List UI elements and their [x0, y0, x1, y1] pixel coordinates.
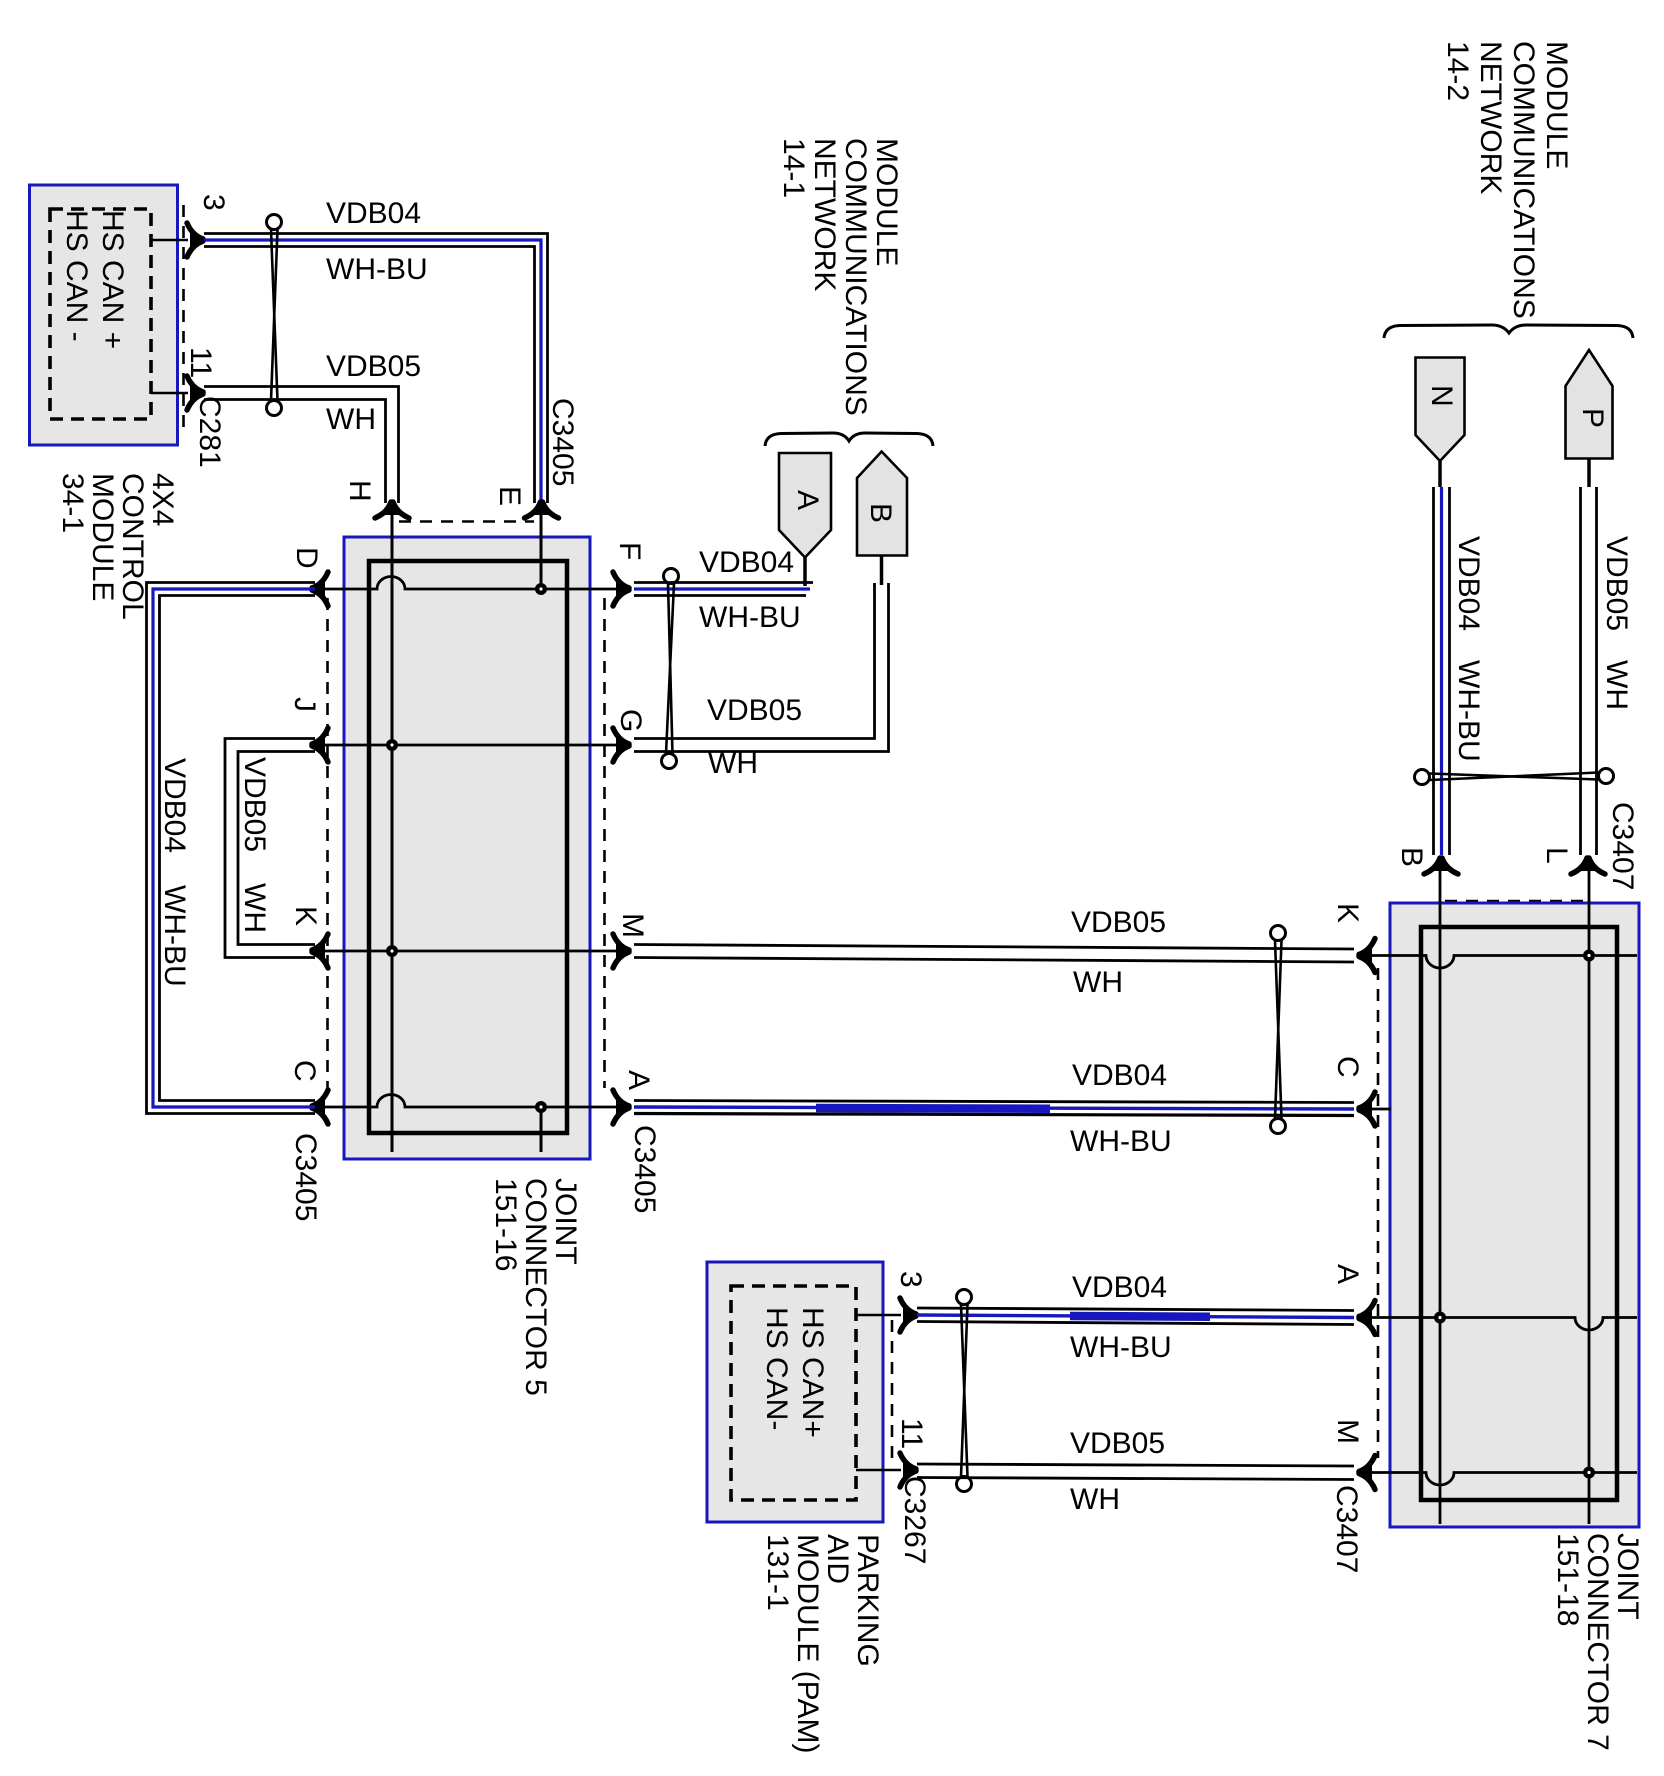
connector label C3267 — [899, 1476, 929, 1564]
JC5 row C-A with hop over H — [315, 1095, 617, 1108]
label MODULE COMMUNICATIONS NETWORK 14-1 — [778, 138, 902, 416]
connector label C3407 (top) — [1607, 802, 1637, 890]
wire VDB05 WH from PAM pin11 to JC7 pin M — [917, 1464, 1354, 1480]
wire label VDB04 (F) — [699, 548, 794, 578]
wire label VDB04 (A-C) — [1072, 1061, 1167, 1091]
wire label WH-BU (A-C) — [1070, 1127, 1172, 1157]
connector label C3405 (C) — [290, 1133, 320, 1221]
wire label WH (G) — [708, 749, 758, 779]
JC7 pin arrows K C A M (left) — [1357, 939, 1375, 973]
pin 3 of PAM — [856, 1298, 918, 1332]
wire label WH-BU (pin3) — [326, 255, 428, 285]
joint connector 7 box — [1390, 903, 1639, 1527]
pin label E — [494, 486, 524, 506]
connector letter B — [865, 503, 895, 523]
connector C3267 dashed face — [891, 1320, 894, 1462]
JC7 row M with hop under B, dot at L — [1362, 1473, 1637, 1486]
pin label 3 (4X4) — [198, 194, 228, 211]
connector C3407 dashed face (top of JC7) — [1445, 900, 1585, 903]
pin label G — [615, 709, 645, 732]
long wire VDB05 WH from JC5 pin M to JC7 pin K — [634, 945, 1354, 963]
brace over network 14-1 connectors — [765, 433, 933, 446]
wire label VDB05 (M-K) — [1071, 908, 1166, 938]
wire VDB04 WH-BU from N to JC7 pin B — [1434, 461, 1450, 855]
off-page connector P — [1566, 350, 1613, 459]
pin label D — [291, 547, 321, 569]
pin label F — [614, 542, 644, 560]
wire VDB04 WH-BU from PAM pin3 to JC7 pin A — [917, 1308, 1354, 1325]
label JOINT CONNECTOR 7 151-18 — [1552, 1533, 1642, 1751]
junction dot E-C — [535, 1101, 547, 1113]
module pins text HS CAN (PAM) — [758, 1307, 830, 1438]
junction dot L-M — [1583, 1467, 1595, 1479]
wire label VDB05 (PAM11) — [1070, 1429, 1165, 1459]
wire label WH (PAM11) — [1070, 1485, 1120, 1515]
JC5 row K-M — [315, 950, 617, 953]
connector letter N — [1426, 385, 1456, 407]
twisted pair symbol N-P (horizontal) — [1415, 769, 1614, 785]
blue highlight segment on PAM VDB04 wire — [1070, 1312, 1210, 1321]
pin label 11 (PAM) — [896, 1418, 926, 1449]
connector letter P — [1577, 408, 1607, 428]
joint connector 5 box — [344, 537, 590, 1159]
wire label VDB05 (G) — [707, 696, 802, 726]
JC7 row C stub — [1362, 1108, 1391, 1111]
connector C3407 dashed face (left of JC7) — [1377, 968, 1380, 1458]
blue highlight segment on VDB04 wire — [816, 1104, 1050, 1113]
wire label VDB04 (PAM3) — [1072, 1273, 1167, 1303]
wire label WH-BU (F) — [699, 603, 801, 633]
JC7 internal bus vertical B — [1439, 868, 1442, 1524]
junction dot E-F — [535, 583, 547, 595]
twisted pair symbol F-G — [662, 569, 679, 769]
wire VDB05 WH from JC5 pin G to connector B — [634, 554, 889, 752]
wire label VDB04 (N) — [1453, 536, 1483, 631]
JC5 pin arrows H E (top) — [375, 500, 409, 518]
pin label K (JC7) — [1332, 903, 1362, 923]
off-page connector A — [779, 453, 831, 558]
pin label A — [623, 1070, 653, 1090]
wire label WH (P) — [1601, 660, 1631, 710]
label JOINT CONNECTOR 5 151-16 — [490, 1178, 580, 1396]
wire VDB05 WH from pin11 to JC5 pin H — [204, 387, 399, 504]
twisted pair symbol at C3267 — [957, 1290, 972, 1492]
wire label VDB05 (loop J-K) — [239, 757, 269, 852]
wire VDB05 WH from P to JC7 pin L — [1581, 459, 1597, 856]
JC7 pin arrows B L (top) — [1424, 856, 1458, 874]
pin label A (JC7) — [1332, 1264, 1362, 1284]
JC5 pin arrows F G M A (right) — [613, 572, 631, 606]
wire label WH-BU (N) — [1453, 660, 1483, 762]
module name 4X4 CONTROL MODULE 34-1 — [57, 473, 177, 620]
pin label C (JC7) — [1332, 1056, 1362, 1078]
wire label WH-BU (loop D-C) — [159, 885, 189, 987]
junction dot H-J — [386, 739, 398, 751]
pin label B (JC7) — [1396, 847, 1426, 867]
wire VDB05 WH loop J to K (left) — [225, 739, 315, 958]
pin label C — [289, 1060, 319, 1082]
JC5 pin arrows D J K C (left) — [310, 572, 328, 606]
long wire VDB04 WH-BU from JC5 pin A to JC7 pin C — [634, 1101, 1354, 1116]
pin 11 of 4X4 module — [151, 376, 205, 410]
JC5 internal bus vertical H — [391, 512, 394, 1152]
connector label C3407 (bottom) — [1331, 1485, 1361, 1573]
JC7 row A with dot at B, hop under L — [1362, 1318, 1637, 1330]
off-page connector N — [1416, 358, 1465, 462]
pin label 3 (PAM) — [895, 1271, 925, 1288]
wire label VDB04 (pin3) — [326, 199, 421, 229]
module 4X4 CONTROL MODULE 34-1 (box) — [30, 185, 178, 445]
label MODULE COMMUNICATIONS NETWORK 14-2 — [1441, 41, 1573, 319]
wire VDB04 WH-BU loop D to C (left) — [147, 583, 316, 1114]
JC7 row K with hop under B, dot at L — [1362, 956, 1637, 968]
twisted pair symbol at C3407 (vertical, long wires) — [1271, 926, 1286, 1134]
JC5 internal bus vertical E (bottom stub) — [540, 1107, 543, 1152]
JC5 row D-F with hop over H — [315, 577, 617, 590]
pin label J — [289, 697, 319, 712]
JC5 internal bus vertical E (top) — [540, 512, 543, 589]
connector label C3405 (A) — [629, 1125, 659, 1213]
connector letter A — [792, 490, 822, 510]
module pins text HS CAN (4X4) — [58, 210, 130, 349]
wire VDB04 WH-BU from JC5 pin F to connector A — [634, 557, 813, 596]
connector C3405 dashed faces of JC5 — [328, 522, 605, 1089]
pin label M (JC7) — [1332, 1419, 1362, 1444]
wire label VDB05 (P) — [1601, 536, 1631, 631]
wire label WH-BU (PAM3) — [1070, 1333, 1172, 1363]
module COMMUNICATIONS NETWORK 14-2 brace — [1384, 325, 1633, 338]
pin 3 of 4X4 module — [151, 223, 205, 257]
wire label WH (pin11) — [326, 405, 376, 435]
pin label H — [344, 480, 374, 502]
junction dot B-A — [1434, 1312, 1446, 1324]
junction dot L-K — [1583, 950, 1595, 962]
connector label C281 — [194, 396, 224, 468]
wire label WH (loop J-K) — [239, 883, 269, 933]
wire VDB04 WH-BU from pin3 to JC5 pin E — [204, 234, 548, 504]
module name PARKING AID MODULE (PAM) 131-1 — [762, 1534, 882, 1753]
connector label C3405 (E) — [547, 398, 577, 486]
pin label L (JC7) — [1541, 847, 1571, 864]
JC5 row J-G — [315, 744, 617, 747]
pin label M — [617, 913, 647, 938]
pin label K — [290, 906, 320, 926]
module PARKING AID MODULE (PAM) box — [707, 1262, 883, 1522]
connector C281 dashed face — [182, 205, 185, 430]
junction dot H-K — [386, 945, 398, 957]
JC7 internal bus vertical L — [1588, 868, 1591, 1524]
twisted pair symbol at C281 — [267, 215, 282, 416]
pin label 11 (4X4) — [185, 347, 215, 378]
wire label VDB05 (pin11) — [326, 352, 421, 382]
wire label WH (M-K) — [1073, 968, 1123, 998]
pin 11 of PAM — [856, 1453, 918, 1487]
off-page connector B — [857, 452, 907, 556]
wire label VDB04 (loop D-C) — [159, 758, 189, 853]
